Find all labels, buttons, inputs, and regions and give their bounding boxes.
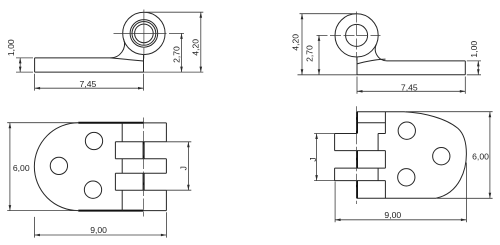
svg-text:1,00: 1,00 [469, 41, 479, 58]
svg-text:4,20: 4,20 [190, 39, 200, 56]
svg-text:1,00: 1,00 [6, 39, 16, 56]
svg-text:7,45: 7,45 [401, 82, 418, 92]
svg-text:6,00: 6,00 [13, 163, 30, 173]
svg-text:9,00: 9,00 [384, 210, 401, 220]
svg-text:2,70: 2,70 [304, 45, 314, 62]
svg-text:9,00: 9,00 [90, 225, 107, 235]
svg-text:J: J [178, 166, 188, 170]
svg-text:J: J [308, 157, 318, 161]
svg-text:6,00: 6,00 [472, 152, 489, 162]
svg-text:4,20: 4,20 [291, 34, 301, 51]
svg-text:2,70: 2,70 [172, 46, 182, 63]
svg-text:7,45: 7,45 [80, 79, 97, 89]
